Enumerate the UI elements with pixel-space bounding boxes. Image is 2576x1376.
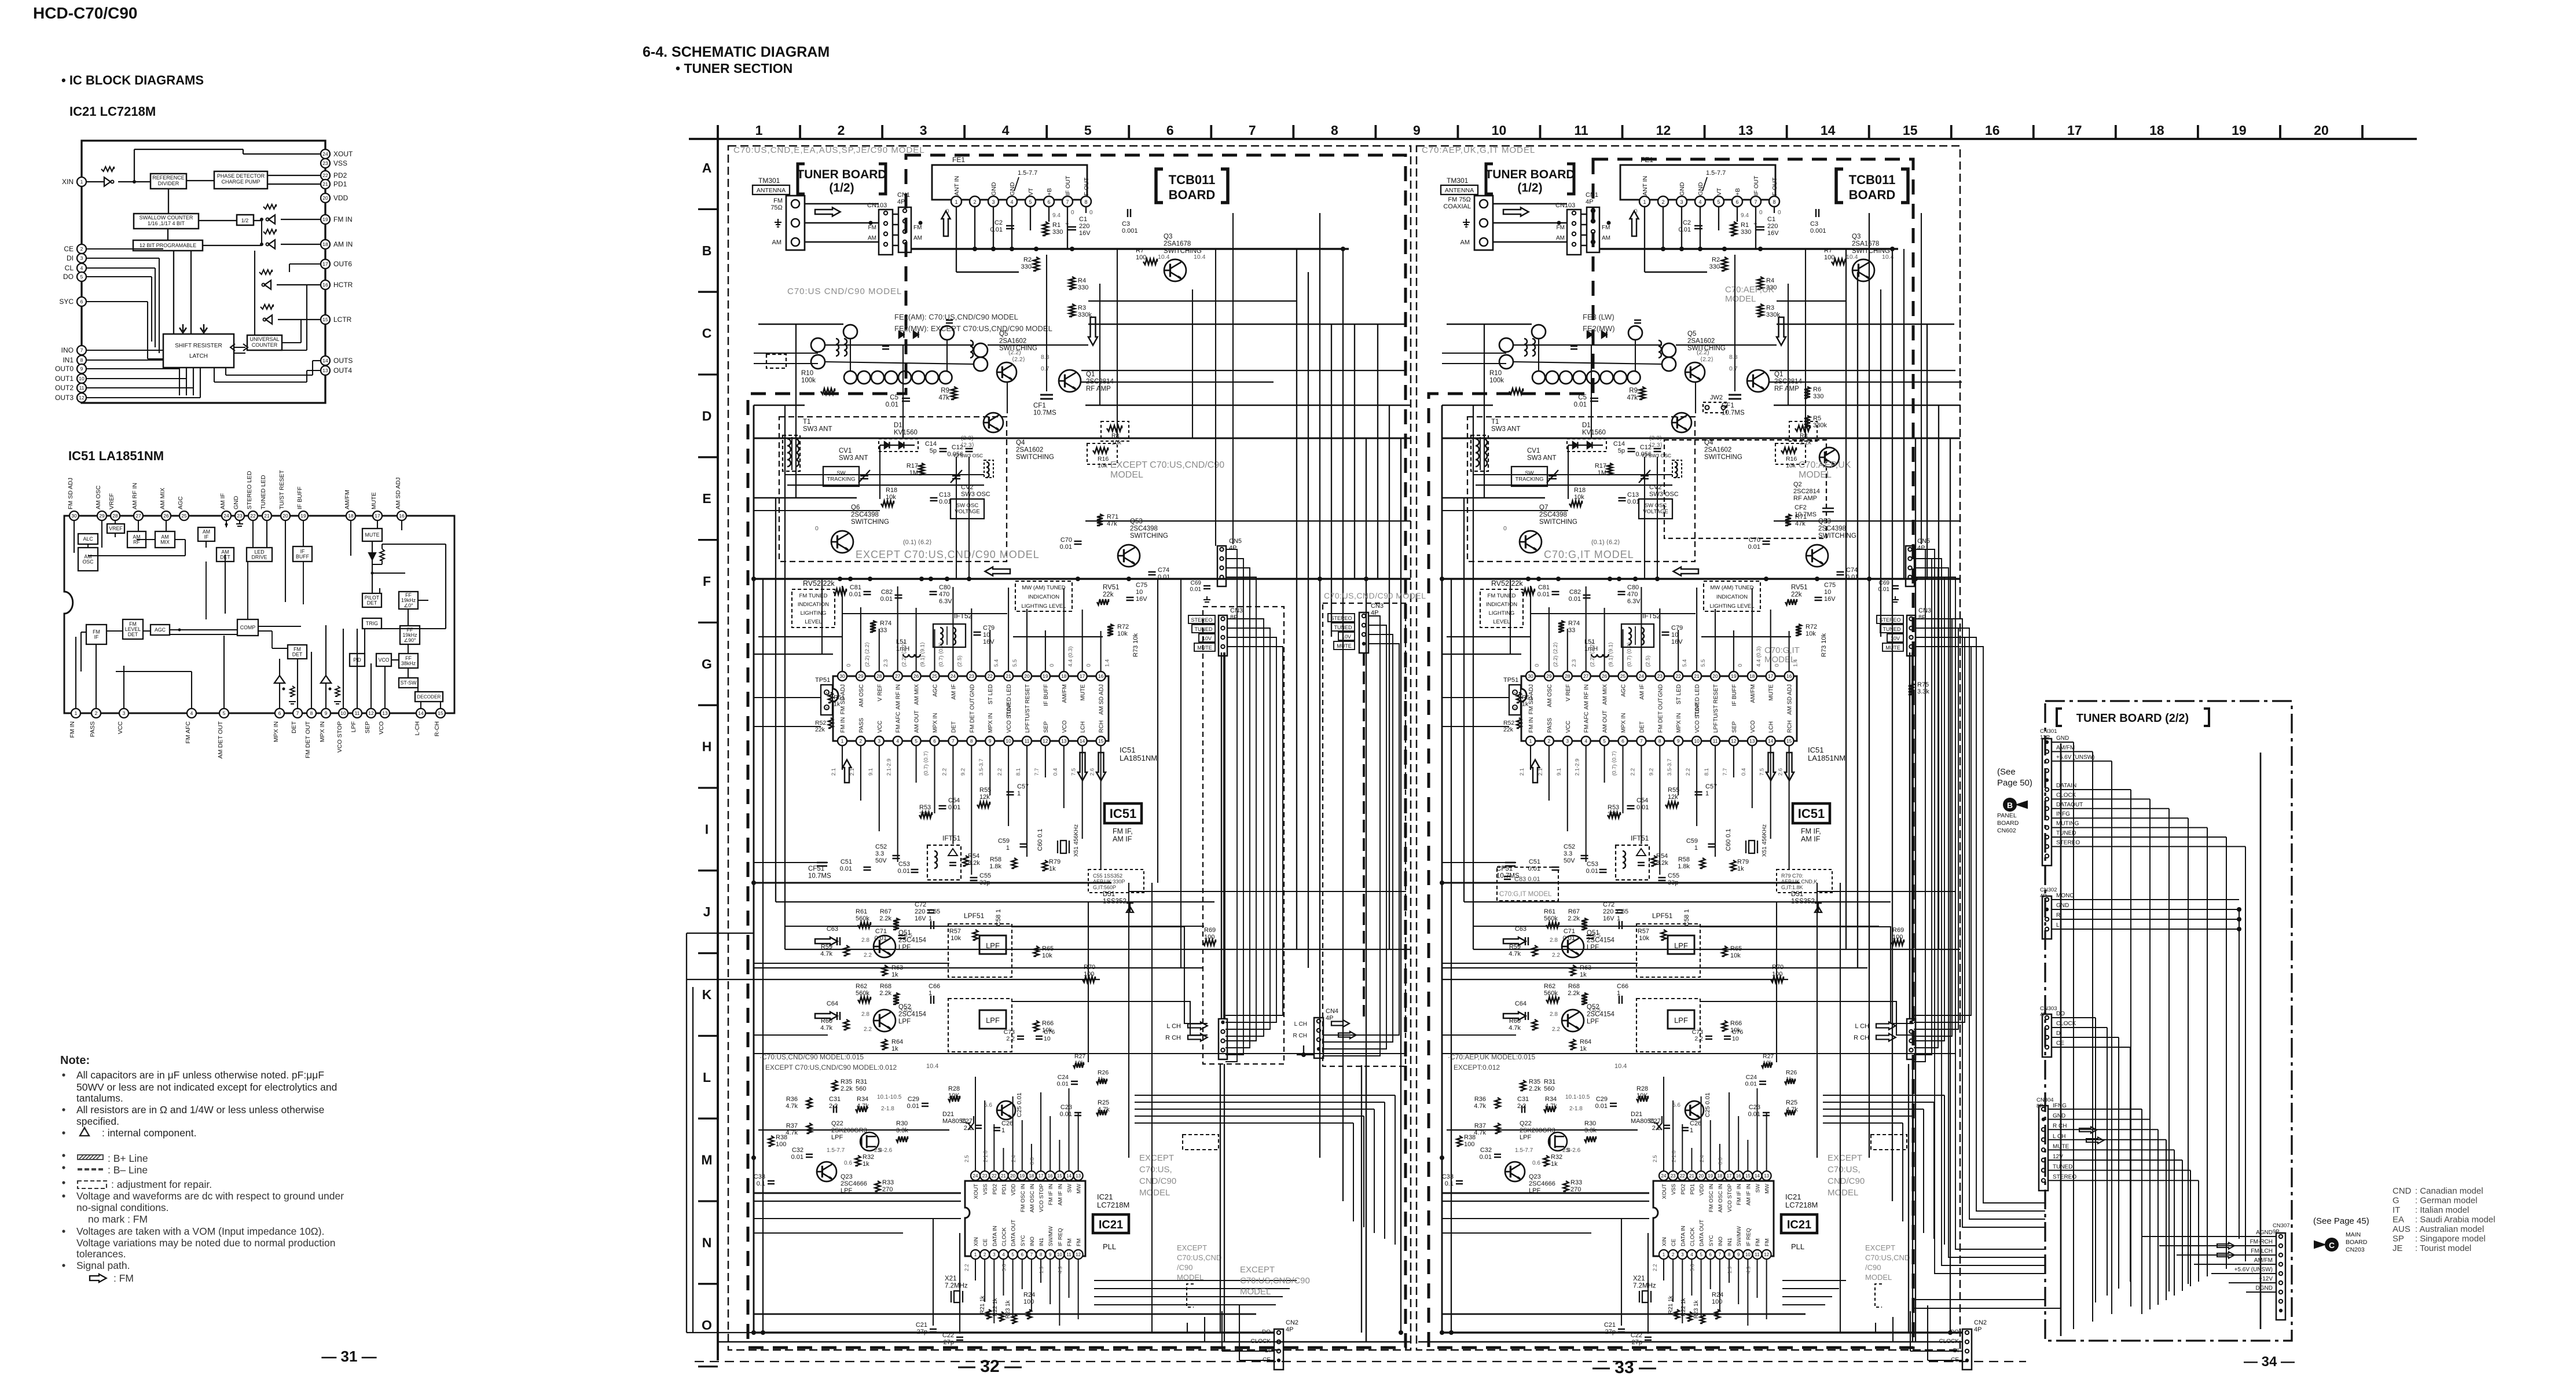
svg-text:GND: GND <box>2053 1113 2065 1120</box>
svg-text:SW3 OSC: SW3 OSC <box>1649 491 1679 498</box>
svg-text:0.01: 0.01 <box>1190 586 1202 593</box>
svg-text:CL: CL <box>65 264 74 272</box>
transistor Q5 <box>1685 362 1705 382</box>
resistor R62 <box>1546 997 1559 1003</box>
svg-text:3: 3 <box>920 123 927 138</box>
FE2 tuning coil cluster <box>1499 320 1676 384</box>
svg-text:CN303: CN303 <box>2040 1006 2057 1012</box>
svg-text:6: 6 <box>1021 1252 1024 1257</box>
svg-text:AM: AM <box>772 239 782 246</box>
transistor Q4 <box>984 413 1003 432</box>
svg-text:BUFF: BUFF <box>296 554 310 560</box>
main horizontal bus row F <box>1442 577 1960 581</box>
IC21 block diagram outline <box>82 141 325 403</box>
transistor Q1 <box>1059 370 1081 392</box>
svg-text:C76: C76 <box>1732 1029 1743 1036</box>
svg-text:5.5: 5.5 <box>1700 659 1707 667</box>
svg-text:28: 28 <box>1565 673 1570 679</box>
resistor R17 <box>1608 463 1613 475</box>
svg-text:7.2MHz: 7.2MHz <box>1633 1283 1656 1290</box>
svg-text:19: 19 <box>300 513 306 519</box>
svg-text:INDICATION: INDICATION <box>1716 594 1748 600</box>
svg-text:C52: C52 <box>875 843 887 850</box>
IC21 12-bit programmable block <box>133 240 203 251</box>
svg-text:3: 3 <box>878 738 880 744</box>
svg-text:DET: DET <box>128 632 138 637</box>
svg-text:2.4: 2.4 <box>1011 1155 1017 1162</box>
transistor Q5 <box>997 362 1017 382</box>
svg-text:AM/FM: AM/FM <box>1750 684 1756 703</box>
svg-text:29: 29 <box>1546 673 1552 679</box>
svg-text:TUNED: TUNED <box>2053 1164 2072 1170</box>
svg-text:10k: 10k <box>1111 439 1122 446</box>
svg-text:PLL: PLL <box>1791 1242 1804 1251</box>
svg-text:(2.2) ⟨2.2⟩: (2.2) ⟨2.2⟩ <box>901 642 908 667</box>
svg-text:3: 3 <box>1681 1252 1684 1257</box>
svg-text:STEREO: STEREO <box>1330 615 1352 621</box>
middle connector fan-out wires <box>1297 616 1399 1342</box>
svg-text:10.4: 10.4 <box>926 1063 938 1070</box>
IC51 ST-SW block <box>399 678 418 688</box>
svg-text:Note:: Note: <box>60 1054 90 1067</box>
svg-text:SW: SW <box>1067 1184 1073 1192</box>
resistor R64 <box>882 1039 887 1050</box>
resistor R62 <box>858 997 871 1003</box>
svg-text:IFNG: IFNG <box>2053 1103 2067 1109</box>
svg-text:10: 10 <box>1694 738 1700 744</box>
svg-text:VSS: VSS <box>982 1184 989 1195</box>
svg-text:DATA OUT: DATA OUT <box>1699 1220 1705 1246</box>
capacitor C26 <box>1682 1127 1689 1129</box>
svg-text:R51: R51 <box>1522 694 1533 701</box>
IC21 swallow counter block <box>134 214 199 229</box>
svg-text:TRIG: TRIG <box>366 621 378 626</box>
svg-text:C3: C3 <box>1810 221 1818 228</box>
svg-text:MODEL: MODEL <box>1110 470 1143 480</box>
svg-text:8.2k: 8.2k <box>968 860 980 867</box>
svg-text:AM SD ADJ: AM SD ADJ <box>1099 684 1105 715</box>
svg-text:FM SD ADJ: FM SD ADJ <box>67 478 74 509</box>
dashed variant box <box>1183 1135 1219 1150</box>
svg-text:1.5-7.7: 1.5-7.7 <box>1018 170 1037 177</box>
svg-text:0: 0 <box>1049 664 1055 667</box>
svg-text:100: 100 <box>1824 254 1834 261</box>
svg-text:SYC: SYC <box>59 298 74 306</box>
svg-text:SW3 ANT: SW3 ANT <box>1527 455 1556 462</box>
svg-text:F OUT: F OUT <box>1083 177 1090 196</box>
resistor R4 <box>1069 277 1075 289</box>
svg-text:13: 13 <box>1061 738 1067 744</box>
svg-text:EXCEPT C70:US,CND/C90: EXCEPT C70:US,CND/C90 <box>1110 460 1224 470</box>
svg-text:8: 8 <box>1040 1252 1043 1257</box>
svg-text:75Ω: 75Ω <box>770 204 783 211</box>
svg-text:3.5-3.7: 3.5-3.7 <box>1667 758 1673 776</box>
svg-text:R33: R33 <box>1570 1179 1582 1186</box>
svg-text:10.1-10.5: 10.1-10.5 <box>877 1094 902 1100</box>
IC51 FF 38kHz block <box>399 654 418 668</box>
svg-text:MUTE: MUTE <box>1768 684 1775 701</box>
capacitor C80 <box>930 591 937 593</box>
svg-text:CE: CE <box>64 245 74 253</box>
coil T2 <box>1672 460 1682 478</box>
svg-text:C70:AEP,UK: C70:AEP,UK <box>1799 460 1851 470</box>
svg-text:JW2: JW2 <box>1710 394 1723 401</box>
svg-text:2.6: 2.6 <box>1089 768 1096 776</box>
svg-text:16: 16 <box>399 513 405 519</box>
svg-text:C60 0.1: C60 0.1 <box>1725 828 1732 851</box>
svg-text:R21 1k: R21 1k <box>979 1295 986 1314</box>
svg-text:MPX IN: MPX IN <box>319 721 326 742</box>
svg-text:INO: INO <box>1029 1236 1036 1246</box>
svg-text:• TUNER SECTION: • TUNER SECTION <box>676 61 792 76</box>
IC51 AM RF block <box>127 531 146 548</box>
svg-text:IF BUFF: IF BUFF <box>1043 684 1050 706</box>
svg-text:C52: C52 <box>1564 843 1575 850</box>
svg-text:2.2: 2.2 <box>997 768 1003 776</box>
resistor R57 <box>973 930 978 940</box>
svg-text:C70:US,: C70:US, <box>1139 1165 1172 1175</box>
svg-text:5: 5 <box>1717 199 1720 205</box>
IC21 FM IN buffer <box>269 215 275 223</box>
svg-text:DRIVE: DRIVE <box>252 555 267 560</box>
bus wires vertical <box>1442 207 1950 1342</box>
svg-text:AM: AM <box>1461 239 1470 246</box>
resistor R18 <box>881 501 894 507</box>
resistor R26 <box>1785 1079 1795 1084</box>
svg-text:VT: VT <box>1716 188 1723 196</box>
LPF dashed region Q51 <box>1636 924 1700 977</box>
capacitor C79 <box>974 632 981 633</box>
svg-text:5: 5 <box>223 710 226 716</box>
svg-text:: German model: : German model <box>2415 1196 2478 1206</box>
svg-text:20: 20 <box>322 195 328 201</box>
svg-text:1: 1 <box>825 692 828 696</box>
resistor R57 <box>1661 930 1667 940</box>
svg-text:R9: R9 <box>1629 387 1638 394</box>
svg-text:C31: C31 <box>829 1096 841 1103</box>
svg-text:23: 23 <box>237 513 243 519</box>
svg-text:FM IN: FM IN <box>333 215 353 223</box>
svg-text:4: 4 <box>190 710 193 716</box>
svg-text:VREF: VREF <box>109 526 123 531</box>
svg-text:C70: C70 <box>1061 537 1072 544</box>
svg-text:: Italian model: : Italian model <box>2415 1205 2469 1215</box>
SW TRACKING box <box>1511 467 1547 486</box>
svg-text:C70:US,: C70:US, <box>1828 1165 1861 1175</box>
svg-text:3: 3 <box>80 255 83 261</box>
svg-text:C70:US CND/C90 MODEL: C70:US CND/C90 MODEL <box>787 287 902 296</box>
capacitor C74 <box>1837 571 1844 573</box>
svg-text:C59: C59 <box>1686 838 1698 845</box>
tuner board 2/2 dash-dot border <box>2045 701 2292 1341</box>
svg-text:22: 22 <box>992 1173 997 1179</box>
svg-text:R55: R55 <box>979 787 991 794</box>
resistor R68 <box>1581 993 1587 1004</box>
svg-text:20: 20 <box>1698 1173 1704 1179</box>
capacitor C75 <box>1126 597 1134 599</box>
svg-text:CND/C90: CND/C90 <box>1139 1176 1176 1186</box>
svg-text:12: 12 <box>79 395 85 401</box>
IC51 FF 19kHz 0 block <box>399 592 418 609</box>
svg-text:C57: C57 <box>1705 783 1717 790</box>
svg-text:0.01: 0.01 <box>1748 1111 1760 1118</box>
jumper JW2 <box>1703 402 1726 413</box>
svg-text:16V: 16V <box>1767 230 1779 237</box>
svg-text:C21: C21 <box>1604 1322 1616 1329</box>
resistor R4 <box>1757 277 1763 289</box>
capacitor C59 <box>1708 843 1716 845</box>
antenna ground symbol <box>775 219 781 227</box>
svg-text:Signal path.: Signal path. <box>76 1260 130 1271</box>
svg-text:CN307: CN307 <box>2273 1223 2290 1229</box>
svg-text:L CH: L CH <box>1166 1023 1181 1030</box>
svg-text:26: 26 <box>163 513 169 519</box>
svg-text:IC21: IC21 <box>1099 1219 1123 1231</box>
svg-text:25: 25 <box>1620 673 1626 679</box>
capacitor C51 <box>1552 867 1559 868</box>
svg-text:330: 330 <box>1709 263 1720 270</box>
svg-text:9.1: 9.1 <box>868 768 874 776</box>
svg-text:: internal component.: : internal component. <box>102 1127 196 1139</box>
svg-text:9.2: 9.2 <box>960 768 966 776</box>
svg-text:V REF: V REF <box>1565 684 1572 701</box>
svg-text:2.2: 2.2 <box>1694 1036 1703 1043</box>
svg-text:FM-LCH: FM-LCH <box>2251 1248 2273 1254</box>
svg-text:C65: C65 <box>1617 908 1628 915</box>
svg-text:2-1.8: 2-1.8 <box>1671 1150 1676 1162</box>
svg-text:9.4: 9.4 <box>1052 212 1061 219</box>
svg-text:TRACKING: TRACKING <box>1515 476 1543 483</box>
svg-text:LPF: LPF <box>1587 1018 1599 1025</box>
svg-text:(See Page 45): (See Page 45) <box>2313 1216 2369 1226</box>
svg-text:5: 5 <box>1011 1252 1014 1257</box>
svg-text:FM: FM <box>1557 225 1565 231</box>
IC51 ALC block <box>78 534 98 544</box>
svg-text:MPX IN: MPX IN <box>933 713 939 733</box>
svg-text:4: 4 <box>80 265 83 271</box>
svg-text:0.01: 0.01 <box>1636 804 1649 811</box>
svg-text:2SA1678: 2SA1678 <box>1852 241 1879 248</box>
CN2 staircase wires <box>1876 1305 1962 1360</box>
right half AEP model board bold dashed border <box>1429 159 1913 1348</box>
svg-text:50V: 50V <box>875 857 887 864</box>
svg-text:9.4: 9.4 <box>1741 212 1749 219</box>
svg-text:R25: R25 <box>1786 1099 1797 1106</box>
svg-text:5.6: 5.6 <box>1690 1264 1696 1271</box>
svg-text:3: 3 <box>1566 738 1569 744</box>
svg-text:D: D <box>702 408 712 423</box>
svg-text:22: 22 <box>250 513 256 519</box>
svg-text:1k: 1k <box>1786 1076 1793 1083</box>
svg-text:PD1: PD1 <box>333 180 347 188</box>
svg-text:14: 14 <box>1755 1173 1760 1179</box>
svg-text:560k: 560k <box>856 915 869 922</box>
svg-text:24: 24 <box>223 513 229 519</box>
svg-text:19: 19 <box>1708 1173 1713 1179</box>
svg-text:10: 10 <box>1492 123 1507 138</box>
svg-text:6.3V: 6.3V <box>1627 598 1641 605</box>
svg-text:AM IF IN: AM IF IN <box>1057 1184 1063 1206</box>
svg-text:0: 0 <box>846 664 852 667</box>
svg-text:AGC: AGC <box>933 684 939 697</box>
svg-text:FM IF IN: FM IF IN <box>1736 1184 1742 1205</box>
svg-text:R30: R30 <box>896 1120 908 1127</box>
svg-text:330: 330 <box>1052 229 1063 236</box>
svg-text:1: 1 <box>955 199 957 205</box>
svg-text:SW3 ANT: SW3 ANT <box>839 455 868 462</box>
svg-text:(2.5): (2.5) <box>1645 655 1651 667</box>
svg-text:1k: 1k <box>863 1161 869 1168</box>
svg-text:C66: C66 <box>929 983 940 990</box>
svg-text:SW: SW <box>836 470 845 476</box>
capacitor C23 <box>1763 1112 1770 1114</box>
svg-text:FM: FM <box>1076 1238 1082 1246</box>
svg-text:R CH: R CH <box>1165 1034 1181 1041</box>
svg-text:AM IF: AM IF <box>1113 835 1132 843</box>
svg-text:4.7k: 4.7k <box>1474 1103 1486 1110</box>
svg-text:1.9: 1.9 <box>1727 1266 1733 1274</box>
svg-text:LA1851NM: LA1851NM <box>1120 754 1157 762</box>
svg-text:CN3: CN3 <box>1371 603 1384 610</box>
svg-text:2.2k: 2.2k <box>1568 915 1580 922</box>
IC51 boxed designator <box>1104 803 1142 823</box>
LPF block Q52 <box>1668 1010 1694 1029</box>
svg-text:G,IT:560P: G,IT:560P <box>1093 885 1116 890</box>
svg-text:MUTE: MUTE <box>1197 645 1212 651</box>
svg-text:6.5: 6.5 <box>904 1007 912 1014</box>
capacitor C59 <box>1020 843 1028 845</box>
svg-text:1k: 1k <box>1098 1076 1104 1083</box>
svg-text:+B: +B <box>1046 188 1053 196</box>
svg-text:1: 1 <box>1001 1127 1005 1134</box>
svg-text:(9.1) ⟨9.1⟩: (9.1) ⟨9.1⟩ <box>1608 642 1614 667</box>
svg-text:C13: C13 <box>939 491 951 498</box>
svg-text:C70:US,CND/C90 MODEL: C70:US,CND/C90 MODEL <box>1324 591 1426 600</box>
svg-text:IC21 LC7218M: IC21 LC7218M <box>69 104 156 119</box>
svg-text:20: 20 <box>1024 673 1030 679</box>
svg-text:AM OSC IN: AM OSC IN <box>1029 1184 1036 1213</box>
capacitor C31 <box>1521 1106 1523 1113</box>
resistor R17 <box>919 463 924 475</box>
svg-text:11: 11 <box>79 385 85 391</box>
svg-text:10k: 10k <box>1639 935 1649 942</box>
svg-text:MODEL: MODEL <box>1828 1188 1858 1198</box>
svg-text:R71: R71 <box>1795 513 1807 520</box>
svg-text:T2 SW3 OSC: T2 SW3 OSC <box>953 453 983 458</box>
svg-text:20: 20 <box>1712 673 1718 679</box>
svg-text:10: 10 <box>1824 589 1831 596</box>
svg-text:15: 15 <box>322 317 328 322</box>
svg-text:: Tourist model: : Tourist model <box>2415 1243 2471 1253</box>
svg-text:DI: DI <box>67 254 74 262</box>
svg-text:1/16 ,1/17 4 BIT: 1/16 ,1/17 4 BIT <box>148 221 185 226</box>
svg-text:0.01: 0.01 <box>898 868 910 875</box>
svg-text:R79: R79 <box>1049 858 1061 865</box>
grid row letters A-O <box>701 160 712 1333</box>
svg-text:1: 1 <box>1694 845 1698 852</box>
svg-text:INDICATION: INDICATION <box>1486 601 1517 608</box>
svg-text:(2.2) ⟨2.2⟩: (2.2) ⟨2.2⟩ <box>1590 642 1596 667</box>
IC51 TRIG block <box>362 618 381 629</box>
svg-text:17: 17 <box>375 513 380 519</box>
svg-text:2: 2 <box>984 1252 986 1257</box>
svg-text:Q4: Q4 <box>1016 439 1025 446</box>
svg-text:0.01: 0.01 <box>907 1103 919 1110</box>
svg-text:ANTENNA: ANTENNA <box>757 187 786 194</box>
capacitor C32 <box>1494 1154 1501 1155</box>
svg-text:C82: C82 <box>881 589 893 596</box>
svg-text:C23: C23 <box>1061 1104 1072 1111</box>
tuner board 1/2 label <box>1486 164 1493 194</box>
svg-text:1: 1 <box>75 710 78 716</box>
svg-text:27: 27 <box>135 513 141 519</box>
svg-text:0.6: 0.6 <box>1532 1160 1540 1166</box>
svg-text:5: 5 <box>1084 123 1092 138</box>
SW OSC VOLTAGE box <box>1639 499 1672 519</box>
svg-text:6.3V: 6.3V <box>939 598 952 605</box>
IC51 top pins 16-30 <box>838 586 1106 722</box>
model legend <box>2392 1186 2495 1253</box>
svg-text:0.01: 0.01 <box>1748 544 1760 551</box>
svg-text:PD2: PD2 <box>333 171 347 179</box>
TCB011 board label <box>1836 169 1843 203</box>
svg-text:FM DET OUT: FM DET OUT <box>1657 698 1664 733</box>
svg-text:TM301: TM301 <box>1447 177 1469 185</box>
resistor R71 <box>1785 514 1791 526</box>
svg-text:C70:G,IT MODEL: C70:G,IT MODEL <box>1544 549 1634 560</box>
svg-text:22k: 22k <box>815 726 825 733</box>
crystal X51 <box>1061 841 1066 853</box>
svg-text:100: 100 <box>1084 971 1094 978</box>
svg-text:CF51: CF51 <box>1496 865 1513 872</box>
svg-text:VCO STOP: VCO STOP <box>1727 1184 1733 1212</box>
FM TUNED INDICATION box <box>792 589 835 628</box>
svg-text:VCO: VCO <box>378 721 385 735</box>
svg-text:SYC: SYC <box>1020 1235 1026 1246</box>
svg-text:AM OSC IN: AM OSC IN <box>1718 1184 1724 1213</box>
svg-text:FM 75Ω: FM 75Ω <box>1448 196 1471 203</box>
svg-text:8: 8 <box>970 738 973 744</box>
svg-text:2.2k: 2.2k <box>1568 990 1580 997</box>
junction dots <box>751 247 1403 1335</box>
svg-text:VSS: VSS <box>1671 1184 1677 1195</box>
svg-text:C71: C71 <box>1564 928 1575 935</box>
svg-text:C14: C14 <box>925 441 937 447</box>
svg-text:R4: R4 <box>1078 277 1086 284</box>
capacitor C80 <box>1618 591 1625 593</box>
svg-text:R62: R62 <box>856 983 867 990</box>
IC21 1/2 divider block <box>237 215 254 225</box>
resistor R63 <box>882 965 887 975</box>
svg-text:C60 0.1: C60 0.1 <box>1037 828 1044 851</box>
svg-text:C80: C80 <box>939 584 951 591</box>
svg-text:2.8: 2.8 <box>861 937 869 944</box>
svg-text:7: 7 <box>296 710 299 716</box>
svg-text:MODEL: MODEL <box>1799 470 1832 480</box>
svg-text:7: 7 <box>952 738 955 744</box>
svg-text:17: 17 <box>1039 1173 1044 1179</box>
capacitor C83 variant box <box>1497 867 1558 901</box>
svg-text:R10: R10 <box>1489 370 1502 377</box>
svg-text:LCH: LCH <box>1768 721 1775 733</box>
svg-text:IC21: IC21 <box>1787 1219 1811 1231</box>
svg-text:FM: FM <box>1764 1238 1771 1246</box>
svg-text:COUNTER: COUNTER <box>252 342 278 348</box>
capacitor C55 <box>1658 877 1666 879</box>
variable capacitor CV2 <box>1641 475 1649 477</box>
svg-text:5: 5 <box>1700 1252 1702 1257</box>
svg-text:SW3 ANT: SW3 ANT <box>803 426 832 433</box>
